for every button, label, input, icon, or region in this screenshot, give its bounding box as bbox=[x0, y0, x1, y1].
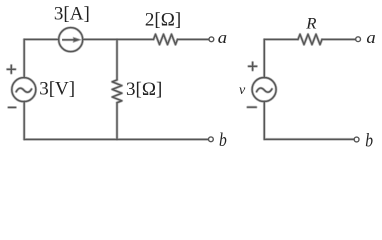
svg-text:a: a bbox=[366, 28, 375, 47]
svg-text:2[Ω]: 2[Ω] bbox=[145, 9, 181, 30]
svg-text:b: b bbox=[219, 130, 227, 151]
svg-text:a: a bbox=[218, 28, 227, 47]
svg-text:3[V]: 3[V] bbox=[39, 79, 75, 100]
svg-text:b: b bbox=[365, 130, 373, 151]
svg-text:v: v bbox=[239, 83, 246, 98]
svg-text:3[A]: 3[A] bbox=[54, 3, 90, 24]
svg-text:R: R bbox=[305, 16, 316, 33]
svg-text:3[Ω]: 3[Ω] bbox=[126, 79, 162, 100]
